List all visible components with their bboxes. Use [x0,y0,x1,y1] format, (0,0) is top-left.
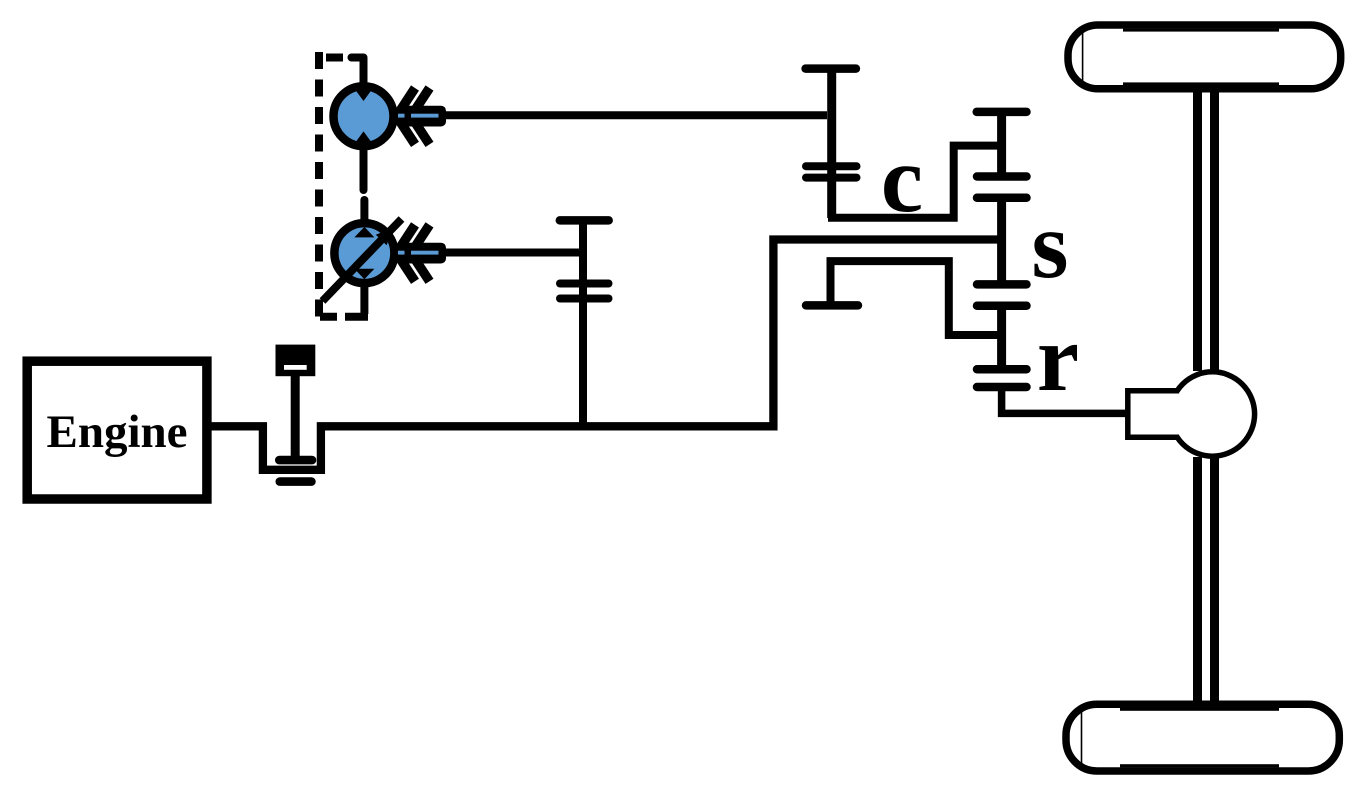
mesh bar D [977,302,1027,311]
dashed enclosure left edge [315,52,323,320]
front wheel inner left line [1082,28,1084,87]
mesh bar C [977,280,1027,289]
wire: P2 shaft to gear B [444,249,579,257]
M1 shaft chevron arrows [397,88,430,144]
P2 shaft hub bar [396,243,446,264]
axle lower right line [1210,457,1219,706]
wire: engine shaft with U dip, main shaft to planetary sun [207,240,1002,470]
hydraulic pump P2 circle [334,223,394,283]
one-way clutch ground square [276,345,316,377]
gear A shaft end bar [806,64,856,73]
svg-text:r: r [1037,305,1079,411]
planetary main vertical: sun shaft top bar [977,108,1027,117]
hydraulic pump P2 top port [360,200,368,224]
M1 shaft hub bar [396,106,446,127]
axle upper left line [1193,86,1202,371]
svg-text:s: s [1032,192,1069,298]
M1 bottom triangle (inward) [355,131,373,143]
dashed enclosure bottom dash 1 [320,313,337,321]
mesh bar F [977,383,1027,392]
P2 bottom triangle (outward) [354,269,374,280]
front wheel outer [1068,25,1341,89]
dashed enclosure bottom dash 2 [345,313,368,321]
axle upper right line [1210,86,1219,371]
M1 hub blue dashes [398,114,405,118]
svg-text:c: c [881,126,923,232]
wire: output to differential [1002,387,1127,413]
one-way clutch plate 1 [275,456,316,465]
mesh bar E [977,365,1027,374]
P2 diagonal arrowhead [376,228,393,245]
gear A mesh bar 2 [806,174,857,182]
P2 top triangle (outward) [354,227,374,238]
gear A mesh bar 1 [806,162,857,170]
hydraulic motor M1 top port hook [352,58,364,88]
gear A vertical shaft [827,69,836,218]
front wheel tread strips [1123,29,1279,32]
sun shaft segment 1 [997,112,1006,177]
rear wheel tread strips [1120,708,1279,711]
sun shaft segment 2 [997,198,1006,285]
mesh bar B [977,194,1027,203]
differential circle [1170,372,1254,456]
rear wheel outer [1066,704,1339,771]
wire: M1 shaft to gear A [444,111,827,119]
one-way clutch slot [284,365,307,370]
wire: ring r link [831,261,1002,335]
sun shaft segment 3 [997,306,1006,370]
axle lower left line [1193,457,1202,706]
wire: carrier c link [828,146,1002,218]
one-way clutch plate 2 [276,477,316,486]
differential nose outline [1128,391,1179,437]
hydraulic motor M1 bottom port [360,146,368,190]
P2 shaft chevron arrows [397,225,430,281]
mesh bar A [977,172,1027,181]
ring shaft end bar [806,301,858,310]
P2 variable displacement diagonal [323,219,402,301]
M1 top triangle (inward) [355,89,373,101]
one-way clutch stem [291,376,300,456]
gear B shaft end bar [560,216,609,225]
dashed enclosure top dash [326,54,343,62]
gear B vertical shaft [579,220,587,426]
P2 hub blue dashes [398,251,405,255]
differential nose erase patch [1130,394,1180,435]
svg-text:Engine: Engine [46,406,187,458]
P2 bottom port [360,283,368,314]
rear wheel inner left line [1081,708,1083,769]
gear B mesh bar 1 [560,280,609,288]
hydraulic motor M1 circle [334,86,394,146]
gear B mesh bar 2 [560,295,609,303]
engine box [27,361,207,499]
